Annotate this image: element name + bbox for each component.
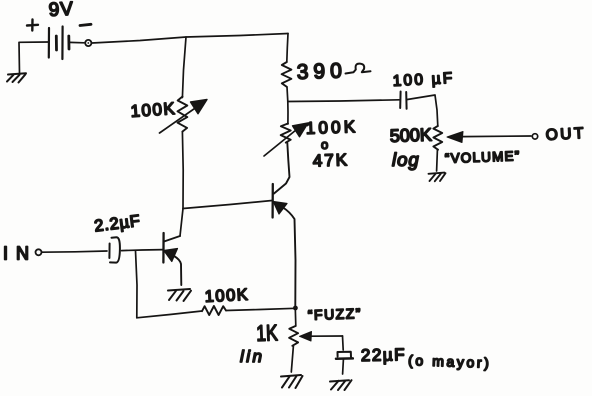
svg-text:22µF: 22µF <box>361 345 406 365</box>
svg-text:1K: 1K <box>256 321 279 346</box>
svg-text:OUT: OUT <box>545 125 586 144</box>
wire 100K to FUZZ node <box>226 308 295 310</box>
resistor 100K (feedback) <box>202 306 226 315</box>
wire volume pot to ground <box>436 150 439 171</box>
transistor Q2 (PNP) <box>271 184 273 218</box>
wire node to Q1 collector <box>180 209 183 237</box>
svg-text:100K: 100K <box>305 117 358 138</box>
Q1 emitter arrow <box>164 249 178 262</box>
wire node A to 100uF <box>288 100 399 102</box>
wire feedback down from base <box>136 251 138 318</box>
ground (volume pot) <box>429 173 446 182</box>
wiper arrow 100K/47K <box>264 130 296 156</box>
wiper arrow volume <box>462 135 531 138</box>
battery BT1 9V <box>49 27 69 60</box>
Q2 collector lead <box>274 143 290 194</box>
svg-text:lin: lin <box>240 347 265 366</box>
transistor Q1 (PNP) <box>162 233 165 263</box>
wire battery to ground <box>19 42 48 74</box>
wire 100uF to volume pot <box>407 95 438 126</box>
minus sign <box>80 24 91 25</box>
svg-text:IN: IN <box>3 244 37 264</box>
ground (22µF) <box>330 380 352 390</box>
Q1 collector lead <box>164 236 180 242</box>
Q1 emitter lead <box>174 256 181 285</box>
svg-text:“FUZZ”: “FUZZ” <box>308 305 363 323</box>
IN terminal circle <box>36 249 42 255</box>
svg-text:47K: 47K <box>312 150 349 170</box>
capacitor C2 100µF <box>400 92 406 109</box>
wire rail corner down to 390 <box>287 34 288 63</box>
wire battery to terminal <box>70 41 85 43</box>
svg-text:“VOLUME”: “VOLUME” <box>445 148 521 166</box>
potentiometer 500K log <box>433 126 442 150</box>
wire Q2 base <box>183 201 272 209</box>
wire IN to 2.2uF <box>42 251 107 252</box>
trimmer 100K (Q1 collector) <box>178 97 188 132</box>
wiper arrow 100K trimmer <box>160 108 197 134</box>
wire V+ rail <box>92 34 288 44</box>
svg-text:o: o <box>321 137 328 152</box>
battery output terminal circle <box>85 40 91 46</box>
wire 390 to node A <box>286 87 289 102</box>
svg-text:log: log <box>392 149 420 170</box>
svg-text:100K: 100K <box>204 286 249 306</box>
junction FUZZ node <box>293 306 298 311</box>
svg-text:390: 390 <box>296 59 347 84</box>
OUT terminal circle <box>532 134 537 139</box>
potentiometer 1K lin <box>294 308 297 326</box>
svg-text:9V: 9V <box>48 0 74 21</box>
trimmer 100K/47K (Q2 collector) <box>287 102 289 125</box>
wire wiper to 22uF <box>342 336 345 350</box>
resistor 390Ω <box>282 62 292 87</box>
svg-text:100 µF: 100 µF <box>392 70 455 90</box>
capacitor C1 2.2µF <box>109 237 120 262</box>
Q2 emitter lead <box>283 208 296 307</box>
ground (1K pot) <box>281 375 303 388</box>
Q2 emitter arrow <box>273 202 287 215</box>
wiper arrow fuzz pot <box>311 335 343 337</box>
ground (battery) <box>7 73 26 82</box>
wire 22uF to ground <box>342 360 345 375</box>
wire feedback bottom <box>137 311 202 318</box>
ground (Q1 emitter) <box>168 289 191 301</box>
plus sign <box>27 20 38 31</box>
wire rail junction down (Q1 collector branch) <box>182 37 186 98</box>
wire 1K pot to ground <box>291 346 293 372</box>
wire 2.2uF to Q1 base <box>122 250 164 251</box>
svg-text:100K: 100K <box>130 99 177 121</box>
svg-text:(o mayor): (o mayor) <box>408 352 492 371</box>
svg-text:500K: 500K <box>389 125 432 146</box>
capacitor C3 22µF <box>336 352 353 359</box>
wire trimmer to Q2 base node <box>181 132 184 209</box>
